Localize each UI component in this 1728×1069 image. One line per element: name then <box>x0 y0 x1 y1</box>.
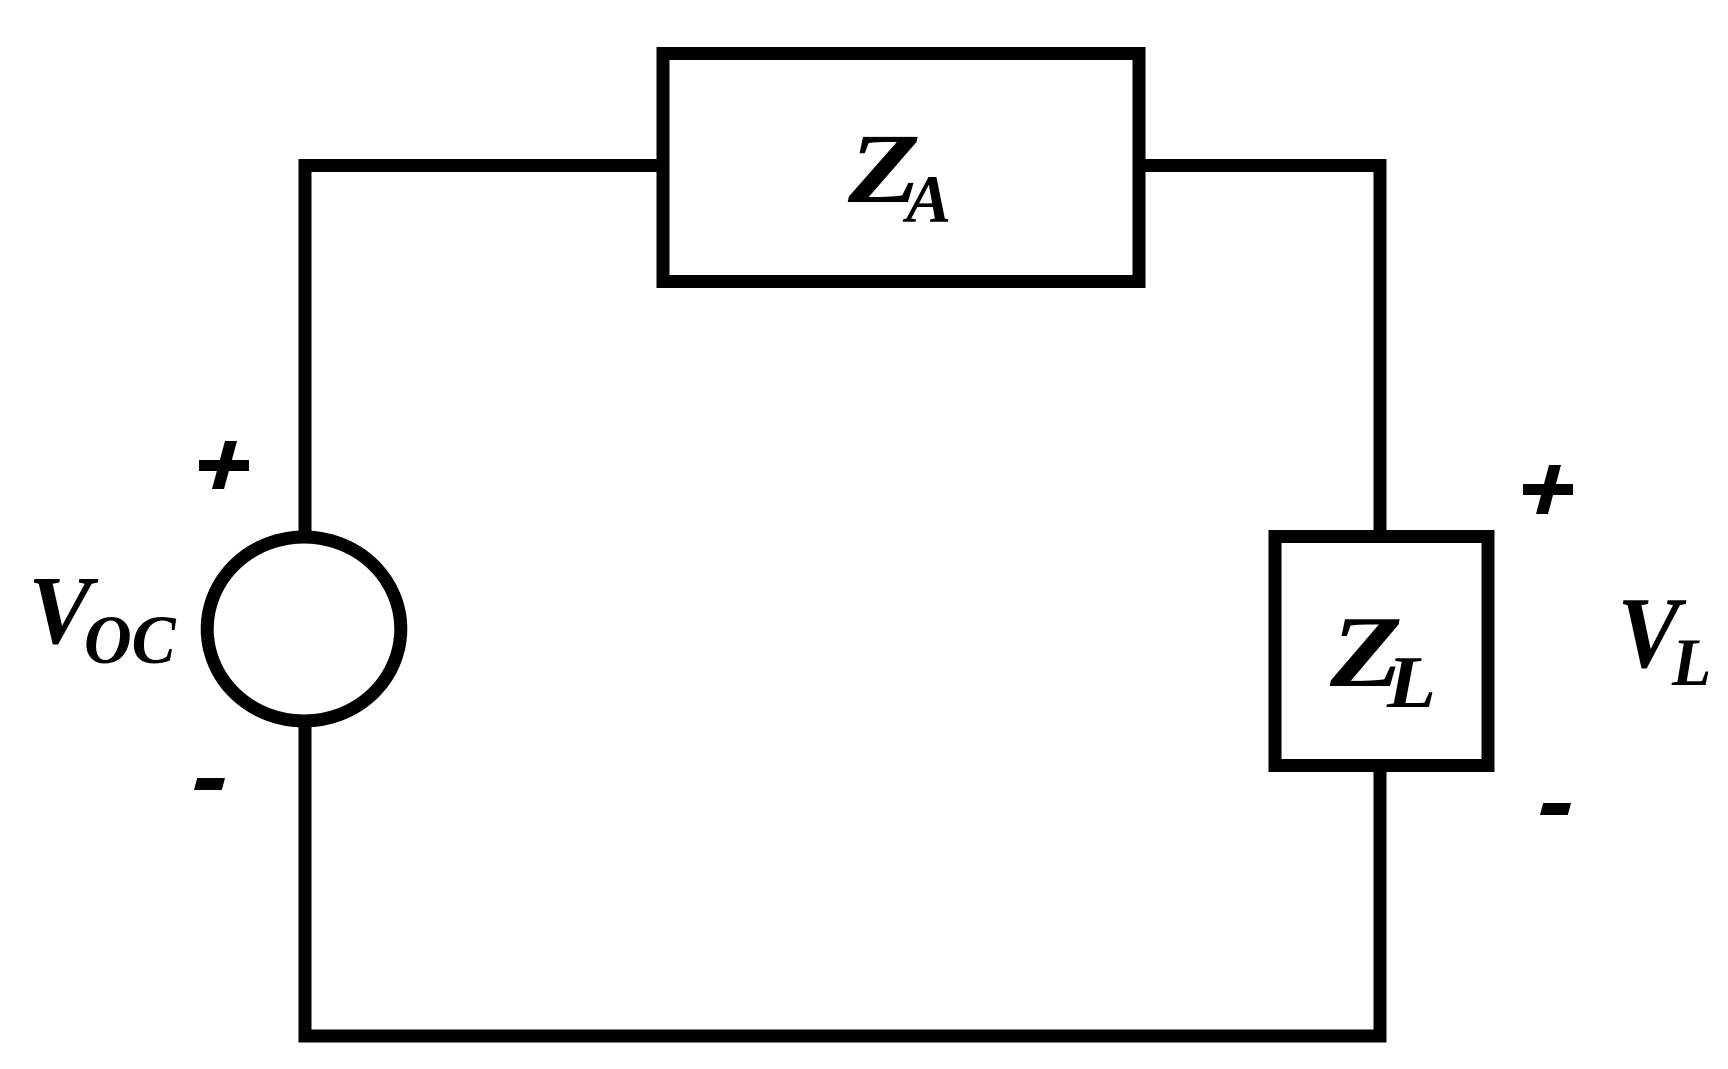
label ZA : Z <box>847 113 921 224</box>
label VOC : V <box>28 556 98 664</box>
wire right vertical lower <box>1374 759 1387 1042</box>
label VOC : subscript OC <box>84 602 177 679</box>
impedance box ZA <box>663 54 1139 282</box>
label ZL : Z <box>1329 595 1403 708</box>
wire top-right horizontal <box>1139 159 1387 172</box>
wire top-left horizontal <box>299 159 664 172</box>
label VL : V <box>1617 578 1686 690</box>
wire right vertical upper <box>1374 159 1387 543</box>
label ZL : subscript L <box>1386 641 1436 723</box>
svg-text:L: L <box>1386 641 1436 723</box>
wire left vertical lower <box>299 722 312 1042</box>
label ZA : subscript A <box>902 162 951 237</box>
minus sign right <box>1540 803 1571 815</box>
svg-text:L: L <box>1671 626 1711 701</box>
source VOC circle <box>207 537 401 721</box>
plus sign left <box>199 460 249 471</box>
wire left vertical upper <box>299 159 312 537</box>
minus sign left <box>194 778 225 790</box>
label VL : subscript L <box>1671 626 1711 701</box>
plus sign right <box>1523 484 1573 495</box>
load box ZL <box>1275 537 1488 766</box>
svg-text:A: A <box>902 162 951 237</box>
svg-text:OC: OC <box>84 602 177 679</box>
wire bottom horizontal <box>299 1030 1387 1043</box>
